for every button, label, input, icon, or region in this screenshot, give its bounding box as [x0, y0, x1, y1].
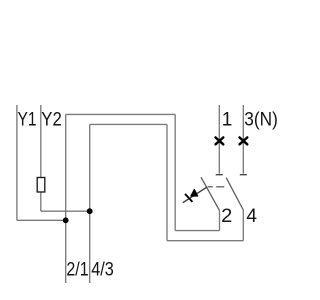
svg-text:2: 2: [221, 206, 232, 227]
wire pole-1 loop right vertical: [174, 114, 176, 230]
wire Y2 vertical upper: [40, 105, 42, 178]
wire Y1 vertical: [16, 105, 18, 220]
wire supply line 1: [218, 105, 220, 174]
trip actuator arrowhead: [191, 189, 198, 196]
wire pole-2 loop bottom horizontal: [167, 240, 243, 242]
wire pole-1 loop top horizontal: [66, 113, 176, 115]
contact arm pole 1: [201, 177, 220, 210]
wire pole-2 branch vertical: [89, 124, 91, 283]
wire pole-1 loop bottom horizontal: [175, 230, 219, 232]
junction dot pole-1 wire: [63, 217, 69, 223]
svg-text:2/1: 2/1: [66, 259, 88, 280]
clamp X on line 1: [216, 138, 224, 145]
fixed contact tick pole 2: [240, 174, 247, 176]
wire Y1 to junction horizontal: [17, 219, 66, 221]
wire pole-2 loop top horizontal: [90, 123, 167, 125]
junction dot pole-2 wire: [87, 208, 93, 214]
svg-text:4/3: 4/3: [91, 259, 114, 280]
wire coil lower: [40, 192, 42, 211]
svg-text:Y2: Y2: [41, 109, 62, 130]
contact arm pole 2: [226, 178, 243, 210]
svg-text:3(N): 3(N): [244, 109, 278, 130]
svg-text:Y1: Y1: [18, 109, 37, 130]
wire pole-2 contact stem: [242, 210, 244, 241]
wire supply line 3(N): [242, 105, 244, 174]
trip actuator cross stroke: [185, 194, 192, 202]
wire pole-2 loop right vertical: [166, 124, 168, 240]
mechanical linkage dash segment 2: [216, 186, 224, 188]
svg-text:1: 1: [222, 109, 233, 130]
wire pole-1 contact stem: [219, 211, 221, 231]
wire Y2 to junction horizontal: [41, 210, 90, 212]
wire pole-1 branch vertical: [65, 114, 67, 283]
clamp X on line 3(N): [240, 138, 248, 145]
svg-text:4: 4: [246, 206, 257, 227]
coil F1 shunt release: [37, 178, 45, 193]
fixed contact tick pole 1: [216, 174, 223, 176]
mechanical linkage dash segment 1: [208, 186, 213, 188]
trip actuator line: [183, 187, 207, 203]
